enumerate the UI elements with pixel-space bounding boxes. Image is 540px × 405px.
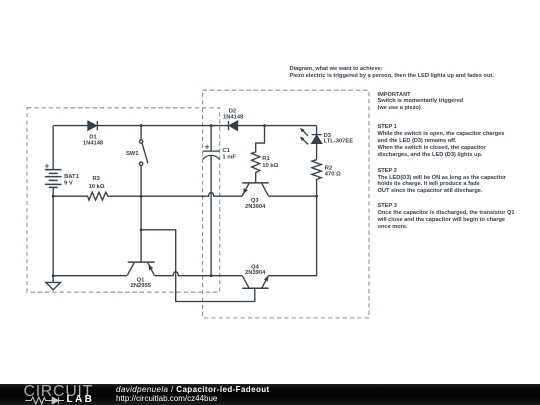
resistor R3 xyxy=(53,192,108,200)
svg-text:1 mF: 1 mF xyxy=(222,155,236,161)
LED D3 xyxy=(312,126,322,160)
wire top rail xyxy=(53,125,316,127)
outer dashed box (battery/switch section) xyxy=(27,108,220,292)
svg-text:9 V: 9 V xyxy=(64,180,73,186)
svg-text:BAT1: BAT1 xyxy=(64,174,79,180)
wire branch node X to Q4 base xyxy=(141,230,255,302)
ground xyxy=(46,282,61,289)
svg-text:1N4148: 1N4148 xyxy=(223,114,244,120)
transistor Q1 xyxy=(127,262,154,276)
svg-text:LTL-307EE: LTL-307EE xyxy=(324,138,354,144)
diode D2 xyxy=(229,121,238,130)
node X branch to Q4 xyxy=(140,228,143,231)
svg-text:R1: R1 xyxy=(262,156,270,162)
annotation: STEP 3 xyxy=(378,203,515,231)
switch SW1 xyxy=(139,126,147,166)
footer bar xyxy=(0,384,540,405)
wire battery negative to ground rail xyxy=(52,188,54,283)
svg-text:C1: C1 xyxy=(222,148,230,154)
annotation: STEP 2 xyxy=(378,168,507,196)
svg-text:10 kΩ: 10 kΩ xyxy=(262,163,278,169)
CircuitLab logo text CIRCUIT xyxy=(24,384,93,400)
wire R3 to Q3 emitter (hop over capacitor wire) xyxy=(108,192,242,196)
footer title xyxy=(116,385,270,403)
annotation: STEP 1 xyxy=(378,124,505,158)
svg-text:2N2955: 2N2955 xyxy=(131,283,152,289)
wire Q3 collector to R2 node xyxy=(269,195,317,197)
node top rail / R1 xyxy=(263,124,266,127)
wire battery positive riser xyxy=(52,126,54,170)
svg-text:470 Ω: 470 Ω xyxy=(325,171,341,177)
svg-text:SW1: SW1 xyxy=(126,151,139,157)
node top rail / SW1 xyxy=(140,124,143,127)
battery BAT1 xyxy=(45,170,62,188)
node ground rail / battery xyxy=(52,274,55,277)
annotation: IMPORTANT note xyxy=(378,92,464,113)
CircuitLab logo text LAB xyxy=(67,395,95,405)
node top rail / C1 xyxy=(210,124,213,127)
node battery / R3 xyxy=(52,195,55,198)
resistor R2 xyxy=(312,160,321,197)
resistor R1 with jog from top rail xyxy=(252,126,265,183)
LED D3 light arrows xyxy=(300,128,308,144)
svg-text:R3: R3 xyxy=(92,176,100,182)
svg-text:10 kΩ: 10 kΩ xyxy=(89,184,105,190)
transistor Q3 xyxy=(242,183,268,196)
annotation: diagram goal text xyxy=(290,66,494,80)
svg-text:2N3904: 2N3904 xyxy=(245,270,266,276)
wire SW1 to Q1 base xyxy=(140,166,142,262)
transistor Q4 xyxy=(242,276,268,289)
node R3 / SW1 / Q1 base xyxy=(140,195,143,198)
wire Q1 emitter to Q4 collector (hop over branch wire) xyxy=(155,272,243,276)
capacitor C1 xyxy=(203,126,220,276)
inner dashed box (capacitor/LED section) xyxy=(203,90,369,318)
svg-text:1N4148: 1N4148 xyxy=(83,141,104,147)
CircuitLab logo squiggle (resistor + diode) xyxy=(25,396,67,405)
node C1 / ground rail xyxy=(210,274,213,277)
node R2 / Q3 collector xyxy=(315,195,318,198)
diode D1 xyxy=(88,121,97,130)
wire ground rail left segment xyxy=(53,275,127,277)
svg-text:2N3904: 2N3904 xyxy=(245,204,266,210)
wire R2 node down to Q4 emitter xyxy=(268,196,316,276)
